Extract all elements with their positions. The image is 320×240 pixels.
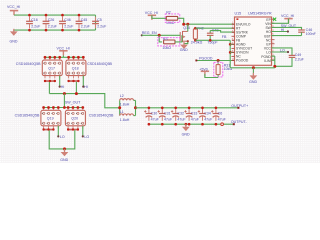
svg-text:1.8uH: 1.8uH	[120, 102, 130, 106]
svg-text:2.2uF: 2.2uF	[81, 25, 91, 29]
wire gnd drop	[13, 30, 15, 31]
svg-text:Q20: Q20	[71, 117, 78, 121]
junction dots low drain rail	[42, 106, 45, 109]
svg-text:C46: C46	[64, 18, 71, 22]
capacitor C46	[59, 17, 66, 28]
svg-text:C45: C45	[81, 18, 88, 22]
svg-text:100nF: 100nF	[306, 32, 317, 36]
wire drop to R3	[159, 35, 162, 42]
wire ILIM	[272, 59, 275, 61]
capacitor C16	[26, 17, 33, 28]
wire SS/TRK	[210, 31, 234, 32]
svg-text:24.9kΩ: 24.9kΩ	[191, 40, 203, 44]
wire Q19 gate stub	[57, 126, 59, 137]
wire SW to bootstrap	[272, 27, 302, 29]
svg-text:VCC_HI: VCC_HI	[281, 14, 294, 18]
wire VCC to C49	[272, 48, 293, 55]
pin numbers left	[232, 23, 235, 61]
svg-text:PGOOD: PGOOD	[236, 59, 249, 63]
svg-text:47uF: 47uF	[204, 117, 213, 121]
svg-text:CSD16540Q5B: CSD16540Q5B	[15, 113, 40, 117]
capacitor C49	[289, 54, 296, 56]
wire Q17 gate stub	[59, 76, 61, 87]
no-connect circle	[221, 123, 224, 126]
Q19 source tie bar	[43, 129, 55, 131]
svg-text:L1: L1	[120, 110, 124, 114]
svg-text:GND: GND	[180, 48, 188, 52]
wire PGND	[272, 55, 275, 57]
resistor R3	[164, 40, 175, 44]
wire analog ground rail	[230, 67, 275, 69]
svg-text:FB: FB	[222, 35, 227, 39]
svg-text:CSD16540Q5B: CSD16540Q5B	[89, 113, 114, 117]
svg-text:1.8uH: 1.8uH	[120, 118, 130, 122]
wire Q20 gate stub	[82, 126, 84, 137]
transistor Q19	[41, 108, 61, 129]
ground (low FET source)	[64, 149, 66, 152]
wire inductor right leg	[135, 100, 137, 115]
wire bottom rail	[14, 29, 96, 31]
svg-text:SW_OUT: SW_OUT	[65, 100, 81, 104]
svg-text:HI: HI	[61, 85, 65, 89]
pin numbers right	[272, 22, 275, 61]
svg-text:GND: GND	[10, 39, 18, 43]
svg-text:10kΩ: 10kΩ	[162, 46, 171, 50]
svg-text:C34: C34	[204, 112, 211, 116]
wire HO stub	[272, 31, 288, 33]
wire +5V0 to R31	[205, 74, 218, 78]
no connect X on EP	[273, 18, 276, 21]
capacitor C31	[158, 109, 166, 121]
wire REG_EN to gate	[142, 34, 180, 36]
transistor Q17	[42, 57, 62, 78]
svg-text:47uF: 47uF	[191, 117, 200, 121]
wire VCC_HI to R2	[152, 15, 166, 18]
svg-text:L2: L2	[120, 94, 124, 98]
capacitor C33	[184, 109, 192, 121]
transistor Q18	[66, 57, 86, 78]
svg-text:2.2uF: 2.2uF	[97, 25, 107, 29]
svg-text:C31: C31	[164, 112, 171, 116]
svg-text:C16: C16	[31, 18, 38, 22]
ground (output)	[185, 123, 188, 126]
wire inductor left leg	[119, 100, 121, 115]
wire SW bus	[49, 94, 119, 108]
svg-text:Q18: Q18	[72, 67, 79, 71]
wire Q16 source to gnd	[184, 41, 188, 44]
ground (IC)	[252, 66, 255, 69]
wire source drops to gnd	[49, 130, 75, 149]
capacitor C30	[144, 109, 152, 121]
svg-text:GND: GND	[249, 80, 257, 84]
wire R3 to gate	[175, 35, 182, 42]
svg-text:U15: U15	[235, 12, 242, 16]
resistor R31	[217, 61, 219, 64]
capacitor C34	[198, 109, 206, 121]
svg-text:10kΩ: 10kΩ	[166, 21, 175, 25]
svg-text:C5: C5	[97, 18, 102, 22]
wire SW_OUT drop to low FET drain rail	[63, 94, 65, 108]
junction dots drain rail	[44, 56, 47, 59]
svg-text:LO: LO	[280, 48, 285, 52]
svg-text:2.2uF: 2.2uF	[31, 25, 41, 29]
resistor R42	[194, 28, 196, 29]
junction R42 bottom	[194, 39, 197, 42]
svg-text:C33: C33	[191, 112, 198, 116]
svg-text:REG_EN: REG_EN	[142, 31, 157, 35]
svg-text:Q19: Q19	[47, 117, 54, 121]
junction gnd	[63, 147, 66, 150]
wire output bottom rail	[149, 123, 234, 125]
svg-text:VCC_HI: VCC_HI	[7, 5, 20, 9]
svg-text:Q16: Q16	[183, 26, 190, 30]
svg-text:OUTPUT+: OUTPUT+	[231, 104, 248, 108]
ground	[10, 29, 18, 36]
junction R42 top	[194, 27, 197, 30]
wire output top rail	[136, 107, 239, 109]
wire drain rail	[45, 56, 83, 58]
svg-text:47uF: 47uF	[151, 117, 160, 121]
capacitor C45	[76, 17, 83, 28]
junction dots output rails	[148, 106, 151, 109]
wire Q16 drain	[187, 24, 189, 31]
wire LO stub	[272, 51, 289, 53]
capacitor C48	[209, 31, 211, 33]
wire PGND/ILIM drop	[274, 56, 276, 68]
capacitor C5	[92, 17, 99, 28]
Q20 source tie bar	[67, 129, 79, 131]
svg-text:47uF: 47uF	[164, 117, 173, 121]
inductor L1	[120, 114, 134, 116]
svg-text:2.2uF: 2.2uF	[48, 25, 58, 29]
wire FB tie	[195, 39, 230, 41]
pin stubs (dark red over wires)	[232, 23, 274, 60]
capacitor C6	[211, 109, 219, 121]
svg-text:C30: C30	[151, 112, 158, 116]
wire top rail	[14, 14, 96, 16]
svg-text:LO: LO	[84, 135, 89, 139]
wire RT	[195, 27, 234, 29]
svg-text:C32: C32	[177, 112, 184, 116]
capacitor C32	[171, 109, 179, 121]
wire VIN	[272, 19, 289, 24]
wire low FET drain rail	[44, 107, 83, 109]
wire Q18 source drop	[75, 82, 77, 94]
svg-text:GND: GND	[182, 133, 190, 137]
capacitor C26	[43, 17, 50, 28]
svg-text:GND: GND	[60, 158, 68, 162]
IC U15 LM5145RGYR buck controller	[235, 17, 272, 65]
svg-text:LM5145RGYR: LM5145RGYR	[248, 12, 272, 16]
svg-text:C6: C6	[218, 112, 223, 116]
svg-text:C26: C26	[48, 18, 55, 22]
junction dots bottom rail	[28, 29, 31, 32]
svg-text:CSD16540Q5B: CSD16540Q5B	[87, 62, 112, 66]
Q17 source tie bar	[44, 80, 56, 82]
capacitor C46 (bootstrap)	[298, 29, 305, 31]
svg-text:47uF: 47uF	[177, 117, 186, 121]
wire R2 to EN junction	[178, 18, 184, 24]
inductor L2	[120, 99, 134, 101]
wire BST	[272, 35, 302, 37]
svg-text:HI: HI	[281, 28, 285, 32]
svg-text:2.2uF: 2.2uF	[64, 25, 74, 29]
wire PGOOD	[197, 60, 235, 62]
svg-text:HI: HI	[84, 85, 88, 89]
svg-text:ILIM: ILIM	[264, 59, 271, 63]
svg-text:2.2uF: 2.2uF	[295, 57, 305, 61]
svg-text:LO: LO	[60, 135, 65, 139]
wire C49 return	[275, 58, 292, 68]
wire EN to IC	[184, 23, 235, 25]
svg-text:47uF: 47uF	[218, 117, 227, 121]
svg-text:CSD16540Q5B: CSD16540Q5B	[16, 62, 41, 66]
transistor Q20	[65, 108, 85, 129]
wire AGND vertical	[229, 40, 231, 68]
junction dots top rail	[28, 14, 31, 17]
wire Q17 source drop	[48, 82, 50, 94]
wire right edge	[95, 15, 97, 30]
ground (Q16 source)	[180, 42, 188, 49]
svg-text:Q17: Q17	[48, 67, 55, 71]
svg-text:VCC_HI: VCC_HI	[145, 11, 158, 15]
wire Q18 gate stub	[82, 76, 84, 87]
Q18 source tie bar	[68, 80, 80, 82]
wire VCC_HI stub	[62, 55, 64, 57]
junction SW bus	[63, 92, 66, 95]
resistor R2	[166, 16, 177, 20]
